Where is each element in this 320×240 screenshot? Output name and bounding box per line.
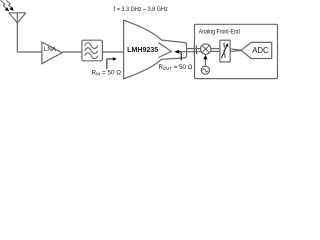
wire amp output upper — [187, 48, 202, 50]
local oscillator — [201, 66, 209, 74]
op-amp U1 LMH9235 block outline — [124, 20, 187, 79]
svg-text:Analog Front-End: Analog Front-End — [199, 28, 240, 35]
coupling capacitor plate 2 — [196, 46, 198, 55]
arrowhead of zigzag 2 — [9, 7, 13, 11]
LO stem wire — [204, 59, 206, 67]
filter wave 1 — [85, 43, 98, 49]
svg-text:RIN = 50 Ω: RIN = 50 Ω — [92, 70, 122, 77]
incoming RF zigzag arrow 1 — [0, 0, 6, 8]
filter wave 2 — [85, 48, 98, 54]
svg-text:ADC: ADC — [252, 46, 269, 55]
wire amp output lower — [181, 51, 201, 53]
arrowhead of zigzag 1 — [5, 7, 10, 11]
filter wave 3 — [85, 53, 98, 59]
tunable filter squiggle — [224, 43, 226, 58]
tunable filter arrow — [221, 46, 227, 58]
svg-text:f = 3.3 GHz – 3.8 GHz: f = 3.3 GHz – 3.8 GHz — [114, 6, 168, 13]
LNA amplifier triangle — [42, 42, 62, 64]
ADC block — [241, 42, 272, 58]
antenna — [9, 13, 26, 52]
coupling capacitor plate 1 — [193, 46, 195, 55]
R_OUT pointer arrow — [179, 52, 182, 61]
incoming RF zigzag arrow 2 — [6, 0, 11, 7]
LO arrowhead — [203, 55, 207, 60]
wires mixer to VGA — [211, 48, 220, 50]
wire LNA to filter — [62, 51, 82, 53]
Analog Front-End box — [195, 24, 278, 78]
wire filter to LMH9235 — [102, 51, 123, 53]
tunable filter box — [220, 40, 230, 62]
R_IN pointer arrow — [107, 59, 113, 69]
svg-text:LMH9235: LMH9235 — [127, 47, 158, 54]
wires VGA to ADC — [230, 49, 241, 50]
amp chevron inside LMH9235 — [158, 43, 171, 58]
wire antenna to LNA — [17, 51, 42, 53]
mixer — [201, 44, 211, 54]
svg-text:LNA: LNA — [44, 46, 57, 53]
band-pass filter box — [82, 40, 103, 61]
